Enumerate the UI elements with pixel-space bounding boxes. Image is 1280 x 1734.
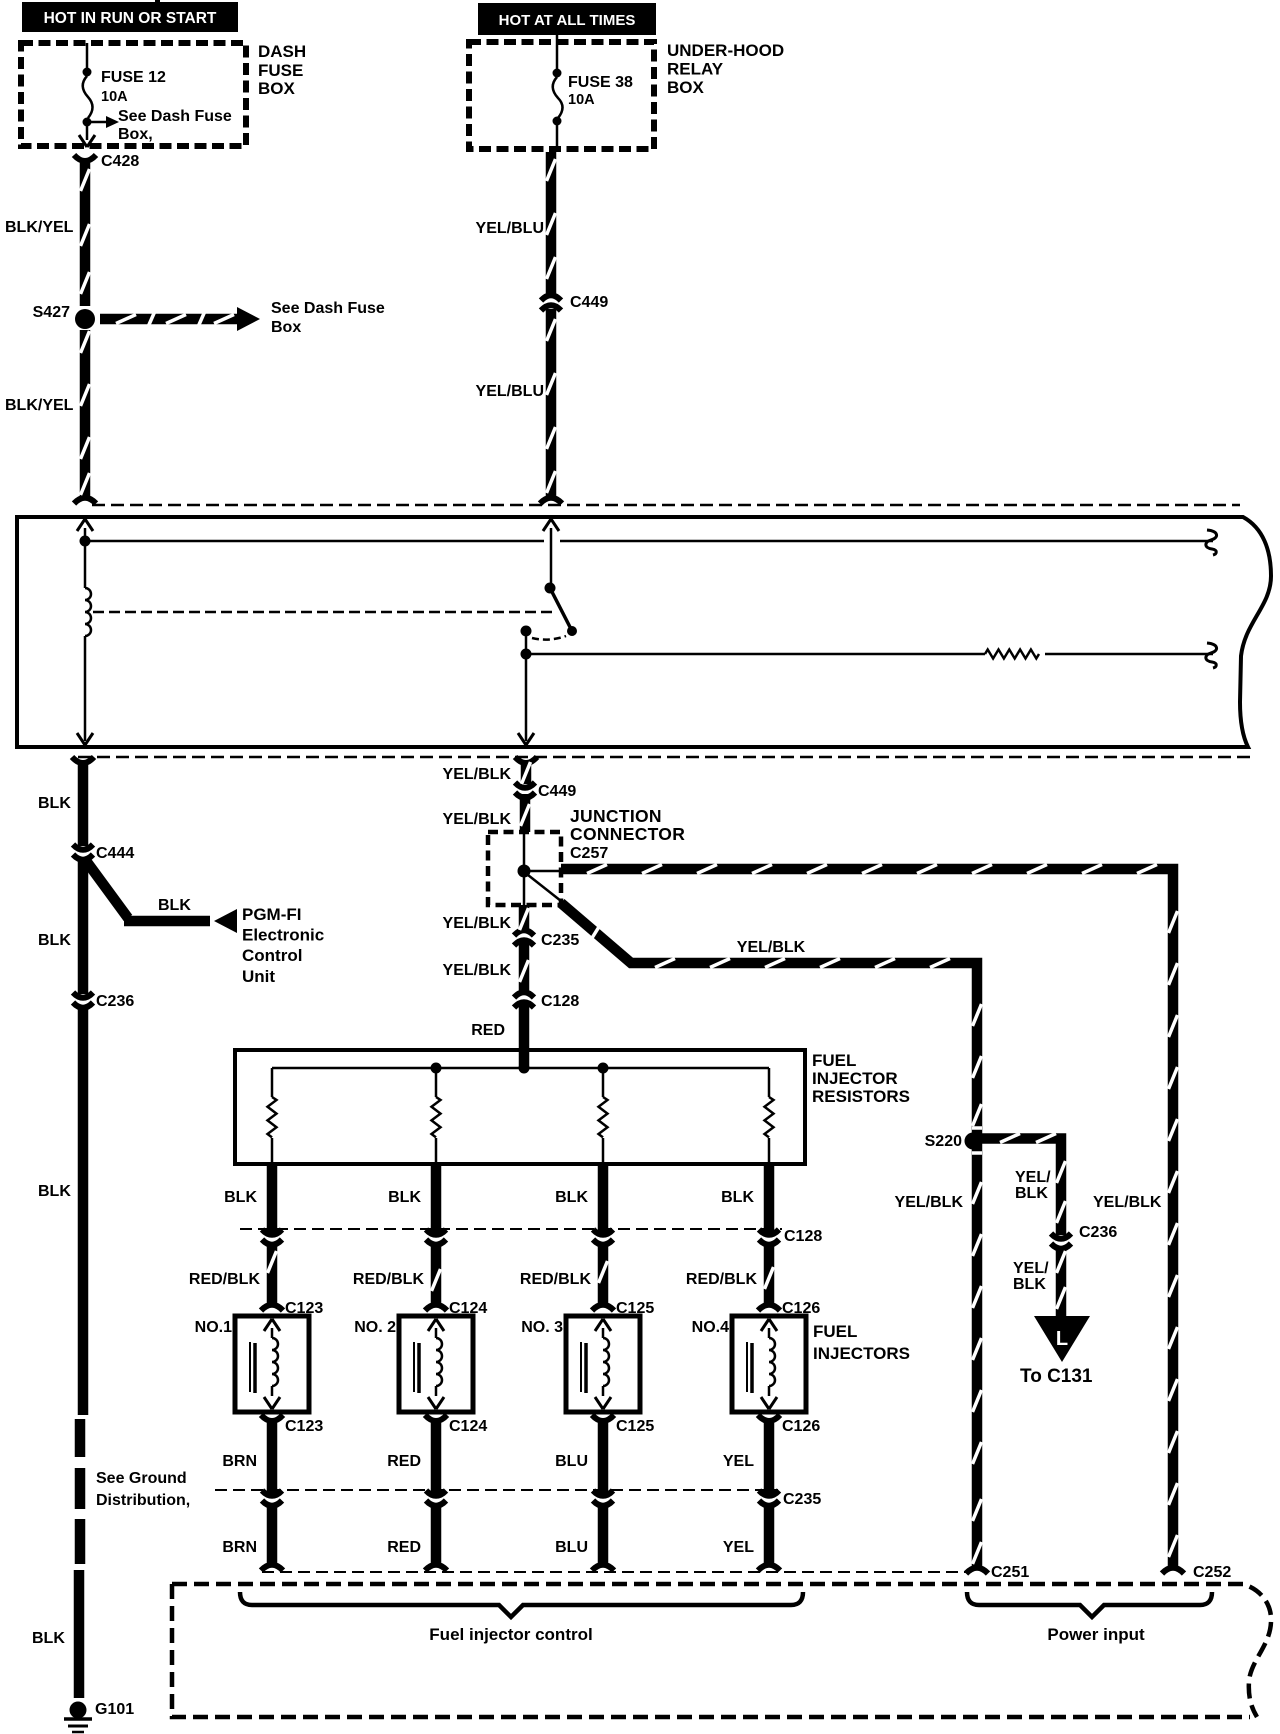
svg-text:See Dash Fuse: See Dash Fuse <box>118 108 232 125</box>
svg-text:C428: C428 <box>101 153 139 170</box>
svg-text:RED: RED <box>471 1022 505 1039</box>
svg-text:G101: G101 <box>95 1701 134 1718</box>
svg-text:YEL/BLU: YEL/BLU <box>476 383 544 400</box>
svg-text:Electronic: Electronic <box>242 926 324 945</box>
svg-text:NO.1: NO.1 <box>195 1319 232 1336</box>
svg-text:BLK: BLK <box>555 1189 588 1206</box>
svg-text:BLK: BLK <box>388 1189 421 1206</box>
svg-text:YEL/BLK: YEL/BLK <box>443 915 512 932</box>
svg-text:C124: C124 <box>449 1300 487 1317</box>
svg-text:PGM-FI: PGM-FI <box>242 905 302 924</box>
svg-text:BLK: BLK <box>38 1183 71 1200</box>
svg-text:NO. 3: NO. 3 <box>521 1319 563 1336</box>
svg-text:CONNECTOR: CONNECTOR <box>570 824 685 844</box>
svg-text:C125: C125 <box>616 1300 654 1317</box>
svg-text:Box,: Box, <box>118 126 153 143</box>
svg-text:BLK: BLK <box>1015 1185 1048 1202</box>
svg-text:BOX: BOX <box>667 78 705 97</box>
svg-text:NO.4: NO.4 <box>692 1319 729 1336</box>
svg-text:L: L <box>1056 1328 1068 1350</box>
svg-text:RED/BLK: RED/BLK <box>520 1271 592 1288</box>
svg-text:C123: C123 <box>285 1418 323 1435</box>
svg-text:YEL/BLK: YEL/BLK <box>895 1194 964 1211</box>
svg-text:See Dash Fuse: See Dash Fuse <box>271 300 385 317</box>
svg-text:C235: C235 <box>783 1491 821 1508</box>
svg-text:YEL/: YEL/ <box>1013 1260 1049 1277</box>
svg-text:Power input: Power input <box>1047 1625 1145 1644</box>
svg-text:FUSE 12: FUSE 12 <box>101 69 166 86</box>
svg-text:BLU: BLU <box>555 1453 588 1470</box>
svg-text:Fuel injector control: Fuel injector control <box>429 1625 592 1644</box>
svg-text:FUEL: FUEL <box>813 1322 857 1341</box>
svg-text:BLK: BLK <box>38 932 71 949</box>
svg-text:BOX: BOX <box>258 79 296 98</box>
svg-text:RESISTORS: RESISTORS <box>812 1087 910 1106</box>
svg-text:BLK: BLK <box>38 795 71 812</box>
svg-text:JUNCTION: JUNCTION <box>570 806 662 826</box>
svg-text:YEL: YEL <box>723 1539 754 1556</box>
svg-text:YEL/BLK: YEL/BLK <box>737 939 806 956</box>
svg-text:See Ground: See Ground <box>96 1470 187 1487</box>
svg-text:RED/BLK: RED/BLK <box>686 1271 758 1288</box>
svg-text:C124: C124 <box>449 1418 487 1435</box>
svg-text:10A: 10A <box>568 92 595 108</box>
svg-text:YEL/: YEL/ <box>1015 1169 1051 1186</box>
svg-text:FUSE: FUSE <box>258 61 303 80</box>
svg-text:Unit: Unit <box>242 967 275 986</box>
svg-text:Control: Control <box>242 946 302 965</box>
svg-text:C235: C235 <box>541 932 579 949</box>
svg-text:INJECTORS: INJECTORS <box>813 1344 910 1363</box>
svg-text:YEL/BLK: YEL/BLK <box>443 766 512 783</box>
svg-text:C251: C251 <box>991 1564 1029 1581</box>
svg-text:UNDER-HOOD: UNDER-HOOD <box>667 41 784 60</box>
svg-text:C257: C257 <box>570 845 608 862</box>
svg-text:FUEL: FUEL <box>812 1051 856 1070</box>
svg-text:HOT AT ALL TIMES: HOT AT ALL TIMES <box>499 12 636 29</box>
svg-text:BLK/YEL: BLK/YEL <box>5 397 74 414</box>
svg-text:YEL/BLK: YEL/BLK <box>443 962 512 979</box>
svg-text:BLK: BLK <box>721 1189 754 1206</box>
svg-text:RED: RED <box>387 1453 421 1470</box>
svg-text:YEL/BLU: YEL/BLU <box>476 220 544 237</box>
svg-text:RELAY: RELAY <box>667 60 724 79</box>
svg-text:BLK: BLK <box>1013 1276 1046 1293</box>
svg-text:INJECTOR: INJECTOR <box>812 1069 898 1088</box>
svg-text:HOT IN RUN OR START: HOT IN RUN OR START <box>44 10 217 27</box>
svg-text:C125: C125 <box>616 1418 654 1435</box>
svg-text:BLK: BLK <box>224 1189 257 1206</box>
svg-text:C123: C123 <box>285 1300 323 1317</box>
svg-text:C449: C449 <box>538 783 576 800</box>
svg-text:YEL: YEL <box>723 1453 754 1470</box>
svg-text:BRN: BRN <box>222 1453 257 1470</box>
svg-text:YEL/BLK: YEL/BLK <box>1093 1194 1162 1211</box>
svg-text:C236: C236 <box>96 993 134 1010</box>
svg-text:YEL/BLK: YEL/BLK <box>443 811 512 828</box>
svg-text:S427: S427 <box>33 304 70 321</box>
svg-text:DASH: DASH <box>258 42 306 61</box>
svg-text:To C131: To C131 <box>1020 1366 1093 1387</box>
svg-text:NO. 2: NO. 2 <box>354 1319 396 1336</box>
svg-text:FUSE 38: FUSE 38 <box>568 74 633 91</box>
svg-text:C128: C128 <box>541 993 579 1010</box>
svg-text:Box: Box <box>271 319 301 336</box>
svg-text:C236: C236 <box>1079 1224 1117 1241</box>
svg-text:BRN: BRN <box>222 1539 257 1556</box>
svg-text:RED/BLK: RED/BLK <box>189 1271 261 1288</box>
svg-text:C128: C128 <box>784 1228 822 1245</box>
svg-text:RED: RED <box>387 1539 421 1556</box>
svg-text:BLK/YEL: BLK/YEL <box>5 219 74 236</box>
svg-text:RED/BLK: RED/BLK <box>353 1271 425 1288</box>
svg-text:C126: C126 <box>782 1418 820 1435</box>
svg-text:S220: S220 <box>925 1133 962 1150</box>
svg-text:C252: C252 <box>1193 1564 1231 1581</box>
svg-text:Distribution,: Distribution, <box>96 1492 190 1509</box>
svg-text:10A: 10A <box>101 89 128 105</box>
svg-text:BLU: BLU <box>555 1539 588 1556</box>
svg-text:C444: C444 <box>96 845 134 862</box>
svg-text:C449: C449 <box>570 294 608 311</box>
svg-text:BLK: BLK <box>158 897 191 914</box>
svg-text:BLK: BLK <box>32 1630 65 1647</box>
svg-text:C126: C126 <box>782 1300 820 1317</box>
